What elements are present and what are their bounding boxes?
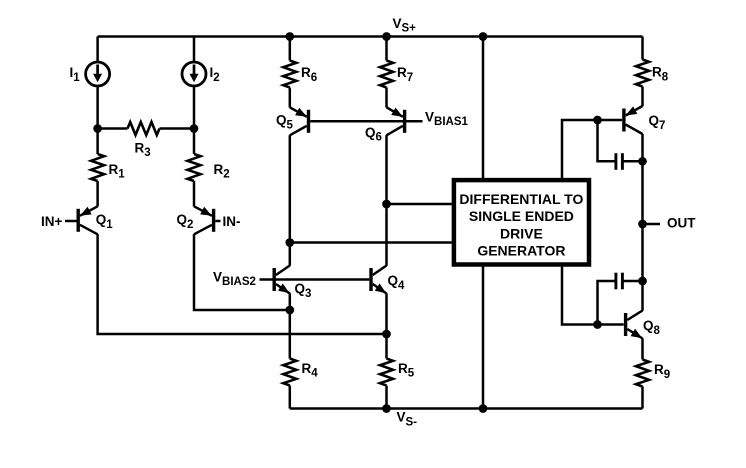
block U1: differential to single ended drive generator <box>454 180 589 264</box>
wire: generator negative supply to bottom rail <box>482 267 485 409</box>
svg-text:Q4: Q4 <box>388 273 406 292</box>
transistor Q6 (PNP) <box>387 107 405 135</box>
wire: rail to I1 <box>96 37 99 63</box>
svg-text:R3: R3 <box>135 140 151 159</box>
wire: R7 to Q6 emitter <box>385 88 388 108</box>
wire: R6 to Q5 emitter <box>289 88 292 108</box>
wire: Q1 collector down and right to R5 node <box>98 234 387 334</box>
wire: generator input upper from Q4 collector node <box>387 203 452 206</box>
wire: R4 to bottom rail <box>289 386 292 409</box>
junction: C2 / Q8 collector <box>638 277 647 286</box>
svg-text:OUT: OUT <box>667 215 696 230</box>
wire: generator positive supply from top rail <box>482 37 485 179</box>
wire: Q2 collector down and right to Q3 emitter node <box>194 234 290 310</box>
svg-text:VBIAS2: VBIAS2 <box>213 269 256 288</box>
wire: Q6 collector down to Q4 collector <box>385 135 388 266</box>
svg-text:DRIVE: DRIVE <box>500 225 543 241</box>
junction: Q8 base / compensation cap C2 <box>593 320 602 329</box>
current source I2 <box>182 62 206 86</box>
svg-text:VS+: VS+ <box>393 16 417 35</box>
wire: R3 to node B <box>160 127 195 130</box>
junction node A: I1/R1/R3 <box>93 124 102 133</box>
wire: C2 branch from Q8 base node <box>598 281 616 325</box>
wire: Q4 emitter down to R5 <box>385 293 388 358</box>
junction: top rail / R6 <box>285 32 294 41</box>
transistor Q4 (NPN) <box>371 266 387 294</box>
svg-text:IN+: IN+ <box>41 214 63 229</box>
transistor Q7 (PNP) <box>624 106 643 134</box>
resistor R5 <box>380 359 393 386</box>
svg-text:R7: R7 <box>397 65 413 84</box>
wire: Q3 emitter down to R4 <box>289 293 292 358</box>
wire: Q5 collector down to Q3 collector <box>289 135 292 266</box>
resistor R9 <box>636 360 649 387</box>
wire: VS+ top supply rail <box>98 35 643 38</box>
wire: VBIAS2 base line through Q3 to Q4 <box>260 278 370 281</box>
wire: C2 to Q8 collector line <box>622 280 642 283</box>
svg-text:R1: R1 <box>109 162 126 181</box>
svg-text:Q2: Q2 <box>177 212 194 231</box>
junction: Q5/Q3 node to generator input <box>285 238 294 247</box>
wire: rail to R8 <box>641 37 644 60</box>
junction: top rail / generator supply <box>479 32 488 41</box>
junction: Q2 collector / Q3 emitter <box>285 306 294 315</box>
wire: Q7 collector to OUT to Q8 collector <box>641 134 644 311</box>
wire: Q1 base stub to IN+ <box>65 220 77 223</box>
svg-text:Q6: Q6 <box>365 125 382 144</box>
svg-text:Q5: Q5 <box>276 113 294 132</box>
svg-text:Q1: Q1 <box>96 212 114 231</box>
svg-text:Q3: Q3 <box>295 281 312 300</box>
svg-text:Q8: Q8 <box>643 318 661 337</box>
wire: C1 to Q7 collector line <box>622 160 642 163</box>
resistor R4 <box>283 359 296 386</box>
wire: generator input lower from Q3 collector node <box>290 241 452 244</box>
svg-text:R5: R5 <box>398 361 415 380</box>
wire: rail to I2 <box>193 37 196 63</box>
wire: I1 to node A <box>96 86 99 129</box>
wire: OUT stub <box>643 223 661 226</box>
transistor Q3 (NPN) <box>274 266 290 294</box>
resistor R1 <box>91 154 104 181</box>
resistor R7 <box>380 61 393 88</box>
wire: Q5/Q6 base line to VBIAS1 <box>310 120 422 123</box>
svg-text:GENERATOR: GENERATOR <box>477 242 565 258</box>
transistor Q1 (PNP) <box>78 206 97 234</box>
svg-text:R6: R6 <box>301 65 317 84</box>
wire: C1 branch from Q7 base node <box>598 120 616 161</box>
junction: Q1 collector / Q4 emitter <box>382 330 391 339</box>
junction: Q7 base / compensation cap C1 <box>593 116 602 125</box>
capacitor C2 (Miller compensation, Q8) <box>616 273 623 290</box>
transistor Q2 (PNP) <box>194 206 214 234</box>
wire: rail to R6 <box>289 37 292 61</box>
junction node B: I2/R2/R3 <box>190 124 199 133</box>
junction: bottom rail / generator supply <box>479 404 488 413</box>
svg-text:SINGLE ENDED: SINGLE ENDED <box>469 208 574 224</box>
svg-text:R8: R8 <box>652 65 669 84</box>
svg-text:I1: I1 <box>70 65 81 84</box>
wire: rail to R7 <box>385 37 388 61</box>
resistor R6 <box>283 61 296 88</box>
current source I1 <box>86 62 110 86</box>
wire: node B to R2 <box>193 129 196 155</box>
svg-text:R9: R9 <box>654 362 670 381</box>
wire: R1 to Q1 emitter <box>96 181 99 207</box>
wire: R8 to Q7 emitter <box>641 87 644 107</box>
resistor R3 <box>128 122 160 135</box>
wire: I2 to node B <box>193 86 196 129</box>
transistor Q8 (NPN) <box>626 311 643 339</box>
junction: top rail / R7 <box>382 32 391 41</box>
junction: OUT node <box>638 220 647 229</box>
resistor R2 <box>188 154 201 181</box>
wire: VS- bottom rail <box>290 407 643 410</box>
wire: R2 to Q2 emitter <box>193 181 196 207</box>
capacitor C1 (Miller compensation, Q7) <box>616 153 623 170</box>
wire: R5 to bottom rail <box>385 386 388 409</box>
wire: generator top drive to Q7 base <box>562 120 622 178</box>
transistor Q5 (PNP) <box>290 107 309 135</box>
junction: bottom rail / R5 <box>382 404 391 413</box>
svg-text:VS-: VS- <box>397 410 418 429</box>
svg-text:R4: R4 <box>302 361 319 380</box>
wire: node A to R1 <box>96 129 99 155</box>
svg-text:VBIAS1: VBIAS1 <box>425 109 468 128</box>
wire: node A to R3 <box>98 127 128 130</box>
svg-text:Q7: Q7 <box>649 113 666 132</box>
svg-text:R2: R2 <box>214 162 230 181</box>
wire: Q2 base stub to IN- <box>215 220 220 223</box>
junction: Q6/Q4 node to generator input <box>382 200 391 209</box>
wire: R9 to bottom rail <box>641 387 644 409</box>
svg-text:I2: I2 <box>210 65 220 84</box>
junction: C1 / Q7 collector <box>638 157 647 166</box>
wire: generator bottom drive to Q8 base <box>562 267 624 325</box>
svg-text:IN-: IN- <box>223 214 241 229</box>
svg-text:DIFFERENTIAL TO: DIFFERENTIAL TO <box>459 191 583 207</box>
resistor R8 <box>636 60 649 87</box>
wire: Q8 emitter to R9 <box>641 338 644 359</box>
